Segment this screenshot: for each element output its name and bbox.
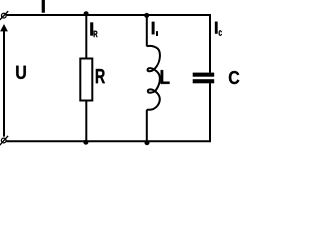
label I_R [90,23,93,36]
terminal bottom-left [0,136,8,145]
subscript c of I_c [219,30,222,36]
label R [96,69,105,83]
wire R branch top [85,15,87,58]
wire L branch bottom [146,110,148,142]
resistor R [80,59,92,101]
junction node bottom L [145,140,150,145]
capacitor C top plate [193,73,215,77]
wire top rail [7,14,211,16]
voltage arrow U shaft [3,31,5,137]
inductor L coil [147,46,160,110]
capacitor C bottom plate [193,79,215,83]
wire bottom rail [6,140,210,142]
junction node top R [84,11,89,16]
label U [16,66,26,79]
label I (total current) [42,0,45,13]
voltage arrow U head [0,24,8,31]
junction node top L [144,13,149,18]
label C [229,71,239,84]
wire L branch top [146,15,148,46]
label L [161,70,170,84]
junction node bottom R [83,140,88,145]
wire R branch bottom [85,101,87,142]
subscript R of I_R [94,31,98,37]
wire C branch bottom [209,83,211,142]
label I_c [215,22,217,34]
subscript l of I_l [156,31,158,36]
label I_l [152,22,155,35]
terminal top-left [0,11,8,20]
wire C branch top [209,14,211,73]
